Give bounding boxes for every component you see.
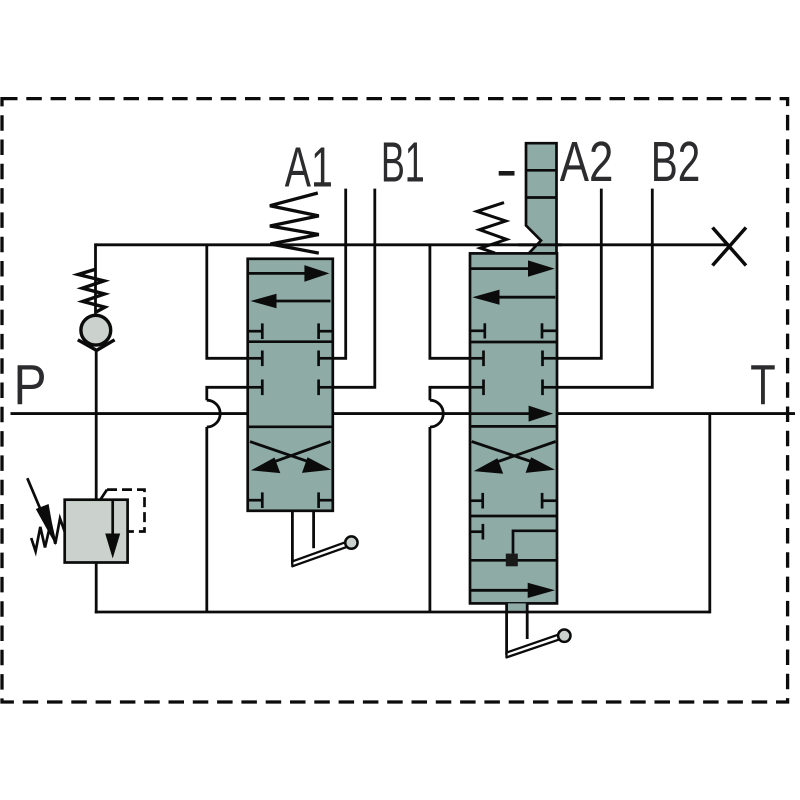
wire: port A1 drop line <box>333 189 346 359</box>
valve V1 lever arm <box>292 542 347 566</box>
label A2 <box>560 129 614 193</box>
svg-text:A2: A2 <box>560 129 614 193</box>
wire: V2 frame vertical down to tank gallery <box>428 427 431 612</box>
wire: left riser from top line down to check valve spring <box>94 243 97 316</box>
valve V1 bottom box crossed arrows <box>250 442 314 464</box>
valve V1 lever knob <box>345 536 357 548</box>
valve V2 middle box open-center through arrow <box>470 412 530 415</box>
svg-text:B2: B2 <box>651 130 700 193</box>
wire: valve V2 frame branch at row2 <box>430 387 470 400</box>
valve V1 middle box blocked stubs row1 <box>248 351 333 367</box>
valve V2 fourth box right-flow arrow <box>471 589 530 592</box>
plugged port X symbol <box>713 228 747 266</box>
enclosure: dashed valve-block boundary <box>2 99 788 702</box>
valve V2 divider 1 <box>470 341 557 344</box>
valve V2 middle box blocked stubs row1 <box>470 351 557 367</box>
valve V2 fourth box blocked stub <box>470 524 483 540</box>
svg-text:T: T <box>750 353 775 417</box>
label B1 <box>381 131 425 194</box>
wire: top supply line from pump riser to plugged port <box>96 243 730 246</box>
spring of valve V2 <box>477 203 507 253</box>
relief valve RV1 spring <box>31 519 64 552</box>
svg-text:B1: B1 <box>381 131 425 194</box>
valve V2 divider 3 <box>470 515 557 518</box>
spring of check valve CV1 <box>78 269 105 312</box>
valve V2 fourth box detent link <box>513 531 557 554</box>
valve V1 body <box>248 259 333 511</box>
label P <box>13 354 46 417</box>
relief valve RV1 pilot line (dashed) <box>100 490 107 500</box>
valve V1 middle box blocked stubs row2 <box>248 380 333 396</box>
relief valve RV1 body <box>65 500 128 563</box>
valve V2 detent square <box>506 554 518 567</box>
label A1 <box>285 136 333 199</box>
wire: valve V1 frame branch at row2 <box>207 387 248 400</box>
wire: port B2 drop line <box>557 189 652 388</box>
valve V2 neck divider 2 <box>526 196 557 199</box>
valve V1 top box right-flow arrow <box>249 272 307 275</box>
wire: main P-T gallery line across the block <box>11 412 796 415</box>
valve V1 bottom box blocked stubs <box>248 492 333 508</box>
valve V1 divider middle/bottom <box>248 425 333 428</box>
wire: valve V1 feed frame vertical from top line <box>207 245 248 358</box>
valve V2 lever actuator mounts <box>505 603 508 655</box>
wire: right riser from tank gallery up to T line <box>708 414 711 614</box>
wire: relief valve outlet to tank gallery <box>95 563 98 614</box>
spring of valve V1 <box>270 193 319 253</box>
wire: bottom tank gallery line <box>95 611 710 614</box>
valve V2 divider 2 <box>470 425 557 428</box>
valve V2 spool tail fill between lever mounts <box>507 603 528 610</box>
valve V1 lever actuator mounts <box>291 511 294 564</box>
valve V2 lever knob <box>558 630 570 642</box>
relief valve RV1 flow arrow <box>111 500 114 535</box>
svg-text:P: P <box>13 354 46 417</box>
wire: port A2 drop line <box>557 189 601 359</box>
valve V2 lever arm <box>507 635 560 658</box>
valve V2 middle box blocked stubs row2 <box>470 380 557 396</box>
valve V1 top box left-flow arrow <box>275 300 331 303</box>
check valve CV1 seat <box>78 340 115 351</box>
valve V2 top box left-flow arrow <box>498 296 555 299</box>
valve V2 top box right-flow arrow <box>470 267 531 270</box>
valve V2 neck divider 1 <box>526 169 557 172</box>
valve V1 top box blocked stubs <box>248 323 333 339</box>
valve V1 divider top/middle <box>248 340 333 343</box>
wire: valve V2 feed frame vertical from top line <box>430 245 470 358</box>
valve V2 body <box>470 253 557 603</box>
valve V2 third box blocked stubs <box>470 493 556 509</box>
valve V2 fourth box port line <box>470 559 557 562</box>
valve V2 third box crossed arrows <box>472 442 537 464</box>
valve V2 top box blocked stubs <box>470 323 556 338</box>
label T <box>750 353 775 417</box>
wire: top supply line segment over spool neck <box>518 243 562 246</box>
wire jump: V2 frame hops over P line <box>430 400 443 427</box>
check valve CV1 ball <box>81 315 111 345</box>
relief valve RV1 adjustment arrow <box>27 478 42 513</box>
wire: V1 frame vertical down to tank gallery <box>205 427 208 612</box>
label B2 <box>651 130 700 193</box>
wire: port B1 drop line <box>333 189 375 388</box>
minus mark left of neck <box>499 171 515 176</box>
valve V2 spool neck extension <box>526 143 557 253</box>
wire: riser from check valve seat down to relief valve RV1 <box>95 349 98 500</box>
wire jump: V1 frame hops over P line <box>207 400 220 427</box>
svg-text:A1: A1 <box>285 136 333 199</box>
